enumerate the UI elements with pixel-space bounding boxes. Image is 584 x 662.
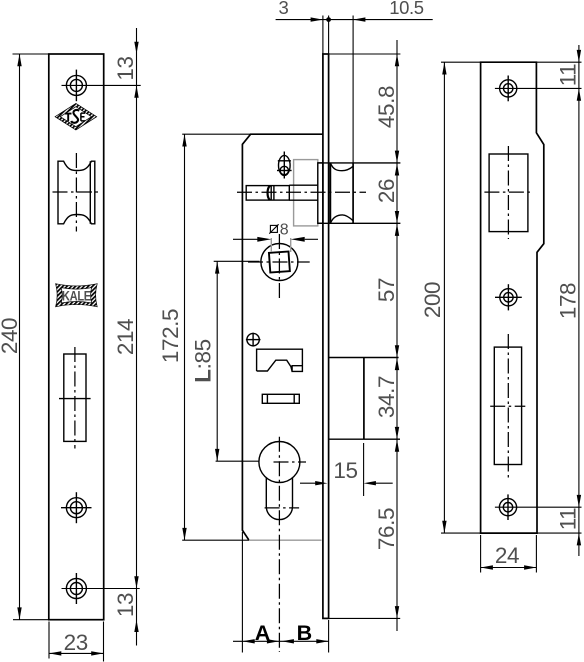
svg-text:8: 8: [280, 222, 289, 239]
svg-text:B: B: [297, 621, 312, 645]
dimension 23: [49, 622, 104, 662]
strike deadbolt cutout: [490, 334, 525, 478]
svg-text:A: A: [255, 621, 270, 645]
dimension L:85: [191, 261, 260, 461]
svg-text:200: 200: [420, 282, 445, 318]
TSE logo: [55, 103, 97, 130]
svg-text:13: 13: [113, 56, 138, 80]
svg-text:23: 23: [64, 630, 88, 655]
svg-text:76.5: 76.5: [374, 508, 399, 550]
latch spindle shaft: [237, 185, 366, 200]
dimension 172.5: [158, 134, 251, 540]
svg-text:11: 11: [556, 64, 581, 87]
middle screw hole: [61, 492, 92, 523]
dimension 15: [300, 443, 393, 496]
deadbolt side view: [329, 358, 400, 440]
latch bolt side view: [318, 163, 401, 223]
dimensions A and B: [233, 532, 329, 653]
svg-text:45.8: 45.8: [374, 86, 399, 128]
svg-text:26: 26: [374, 179, 399, 203]
faceplate side view: [323, 16, 329, 619]
latch flange: [318, 163, 323, 223]
adjuster oval screw: [277, 152, 292, 179]
dimension 24: [481, 535, 537, 573]
dimension 200: [420, 62, 481, 533]
dimension 240: [0, 54, 49, 620]
dimension 13 top / 214 / 13 bottom: [113, 28, 139, 646]
strike top screw hole: [495, 76, 582, 102]
latch guide housing (gray): [294, 160, 318, 226]
chain dimensions 45.8 26 57 34.7 76.5: [329, 40, 401, 631]
svg-text:KALE: KALE: [62, 289, 91, 304]
top dimensions 3 and 10.5: [276, 0, 433, 163]
svg-text:178: 178: [556, 283, 581, 319]
cross point marker: [246, 333, 261, 347]
svg-text:10.5: 10.5: [389, 0, 424, 18]
bottom screw hole: [62, 573, 140, 604]
svg-text:172.5: 172.5: [158, 309, 183, 363]
deadbolt cutout: [59, 347, 91, 449]
svg-text:13: 13: [113, 593, 138, 617]
spring bar: [262, 394, 299, 403]
strike plate outline: [481, 62, 544, 533]
svg-text:L:85: L:85: [191, 339, 216, 382]
spindle hub square follower: [248, 234, 310, 298]
dimensions 11 / 178 / 11: [536, 45, 581, 556]
svg-text:240: 240: [0, 318, 22, 354]
latch cutout spool shape: [53, 153, 101, 232]
lock case outline: [242, 134, 323, 540]
dimension square 8: [233, 222, 318, 252]
strike latch cutout: [484, 146, 532, 239]
svg-text:214: 214: [113, 319, 138, 355]
strike middle screw hole: [495, 284, 522, 310]
svg-text:15: 15: [333, 458, 357, 483]
faceplate outline left view: [49, 54, 104, 620]
svg-text:24: 24: [495, 543, 519, 568]
deadlock slider plate: [257, 349, 303, 371]
case bottom edge (gray): [249, 539, 322, 541]
euro cylinder hole: [259, 437, 306, 652]
svg-text:57: 57: [374, 278, 399, 302]
svg-text:34.7: 34.7: [374, 376, 399, 418]
KALE logo: [56, 284, 98, 307]
top screw hole: [62, 70, 141, 102]
svg-text:11: 11: [556, 508, 581, 531]
strike bottom screw hole: [495, 494, 582, 520]
svg-text:3: 3: [279, 0, 289, 18]
